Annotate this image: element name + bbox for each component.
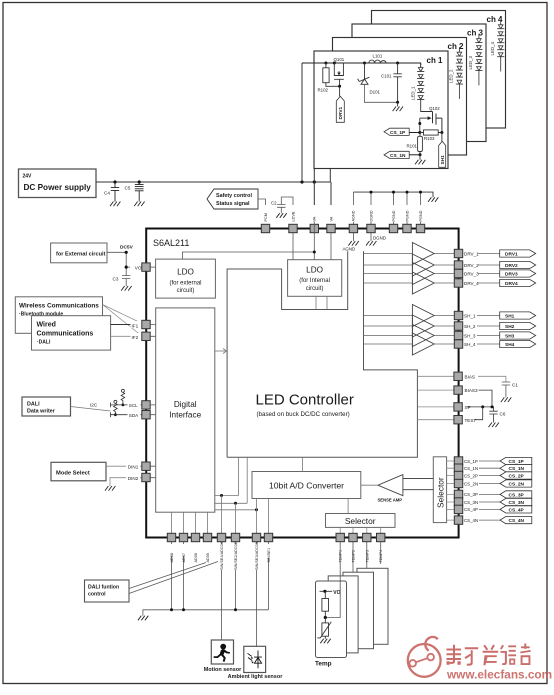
svg-text:SH_1: SH_1	[464, 313, 476, 318]
node ch1 supply riser	[300, 180, 303, 183]
wire selector to TEMP pins	[340, 527, 381, 533]
wire DIN1	[106, 465, 146, 467]
buffer DRV_1	[412, 243, 434, 265]
wire CS pins to tags	[463, 461, 500, 520]
wire SH driver inputs	[364, 316, 413, 345]
wire SDA	[110, 412, 146, 417]
svg-text:TEMP4: TEMP4	[379, 550, 383, 563]
svg-text:SH4: SH4	[505, 342, 515, 348]
node R103 right	[440, 131, 443, 134]
svg-text:AD06: AD06	[194, 553, 198, 563]
svg-text:LED_3: LED_3	[468, 56, 473, 70]
LED chain LED_4	[497, 20, 504, 72]
wire TEST up	[475, 407, 483, 420]
capacitor C6	[489, 407, 497, 423]
net tag DRV1	[500, 250, 536, 287]
wire wired to IF2	[111, 335, 146, 337]
svg-text:for External circuit: for External circuit	[56, 252, 106, 258]
buffer DRV_3	[412, 263, 434, 285]
wire SH pins to tags	[463, 316, 500, 345]
VO pin (left)	[126, 266, 146, 268]
wire DALI pointers	[129, 562, 218, 594]
wire AD08 AD07 down to gnd rail	[172, 542, 184, 610]
svg-text:R103: R103	[424, 136, 435, 141]
svg-text:www.elecfans.com: www.elecfans.com	[446, 668, 552, 682]
svg-text:VO: VO	[333, 590, 340, 596]
node R102 tap	[324, 62, 327, 65]
resistor R101	[418, 136, 423, 151]
pin DIN2	[126, 474, 140, 481]
wire riser to ch1	[301, 63, 303, 182]
svg-text:SH_2: SH_2	[464, 324, 476, 329]
svg-text:CS_3N: CS_3N	[464, 500, 478, 505]
svg-text:DRV_1: DRV_1	[464, 251, 479, 256]
svg-text:TEST: TEST	[465, 418, 477, 423]
svg-text:SIN/SE1: SIN/SE1	[267, 548, 271, 563]
pin BIAS3	[454, 386, 462, 394]
ch 1 box	[314, 51, 448, 169]
buffer DRV_4	[412, 272, 434, 294]
pin SP	[454, 403, 462, 411]
LED chain LED_3	[475, 34, 482, 86]
wire I2C link	[71, 407, 111, 412]
LED chain LED_1	[417, 68, 424, 100]
Selector (bottom)	[326, 514, 396, 528]
node VA riser	[313, 180, 316, 183]
wire SCL	[110, 403, 146, 408]
wire IF pins to DigIf	[150, 325, 156, 337]
svg-text:SH_3: SH_3	[464, 333, 476, 338]
svg-text:CS_1P: CS_1P	[464, 459, 478, 464]
svg-text:AD07: AD07	[182, 553, 186, 563]
svg-text:·DALI: ·DALI	[37, 340, 51, 346]
svg-text:Q102: Q102	[429, 106, 440, 111]
svg-text:CS_1N: CS_1N	[464, 466, 478, 471]
wire wireless diagonals to IF1 IF2	[103, 305, 141, 335]
svg-text:DRV1: DRV1	[505, 251, 518, 257]
ch 2 box	[333, 38, 467, 156]
svg-text:SENSE AMP: SENSE AMP	[378, 498, 403, 503]
ground AGND below pin	[352, 233, 354, 241]
svg-text:BIAS3: BIAS3	[465, 388, 478, 393]
svg-text:VA: VA	[329, 216, 333, 221]
svg-text:I2C: I2C	[90, 403, 98, 408]
svg-text:24V: 24V	[23, 174, 33, 180]
pin DIN1	[126, 463, 140, 470]
capacitor C101	[393, 63, 401, 102]
svg-text:DRV4: DRV4	[505, 281, 518, 287]
Temp block boxes	[357, 568, 388, 644]
svg-text:DALI funtion: DALI funtion	[88, 585, 119, 591]
svg-text:C101: C101	[381, 74, 392, 79]
svg-text:DALI: DALI	[27, 402, 40, 408]
svg-text:CS_1N: CS_1N	[509, 466, 525, 472]
wire sense amp to selector	[403, 479, 433, 490]
right pins DRV	[454, 249, 462, 287]
svg-text:C5: C5	[125, 186, 131, 191]
LDO for Internal circuit	[288, 260, 342, 297]
top pin labels	[263, 205, 423, 222]
svg-text:LDO: LDO	[177, 268, 194, 277]
svg-text:L101: L101	[373, 54, 383, 59]
svg-text:DC Power supply: DC Power supply	[24, 183, 92, 192]
capacitor C4	[111, 182, 119, 202]
svg-text:CS_4N: CS_4N	[464, 518, 478, 523]
svg-text:CS_2N: CS_2N	[464, 481, 478, 486]
wire safety tag to PCM pin	[258, 199, 266, 222]
buffer DRV_2	[412, 254, 434, 276]
svg-text:Ambient light sensor: Ambient light sensor	[228, 674, 284, 680]
ch 3 box	[352, 24, 486, 142]
svg-text:SIN/SE4/ADC04: SIN/SE4/ADC04	[220, 542, 224, 570]
svg-text:DRV2: DRV2	[505, 263, 518, 269]
svg-text:(for external: (for external	[169, 281, 201, 287]
svg-text:Selector: Selector	[436, 477, 446, 508]
Digital Interface block	[156, 308, 215, 512]
wire LDVB pin to LDO int	[292, 233, 294, 260]
wire DIN pins to DigIf	[150, 466, 156, 478]
inductor L101	[369, 60, 386, 63]
wire top ground rail	[353, 192, 433, 197]
wire DigIf to ADC harness	[215, 457, 257, 510]
wire PGND stubs	[394, 192, 421, 225]
svg-text:Q101: Q101	[334, 57, 345, 62]
svg-text:PGND: PGND	[392, 210, 396, 221]
svg-text:AD08: AD08	[170, 553, 174, 563]
svg-text:LED Controller: LED Controller	[256, 392, 354, 409]
wire BIAS internal stubs	[417, 376, 454, 419]
svg-text:Wired: Wired	[37, 322, 56, 329]
node temp divider	[324, 616, 327, 619]
svg-text:VA: VA	[313, 216, 317, 221]
node C101 tap	[396, 62, 399, 65]
sensor Motion sensor	[211, 640, 233, 664]
buffer SH_3	[412, 325, 434, 347]
wire SIN pins down	[222, 542, 269, 647]
svg-text:AGND: AGND	[352, 210, 356, 221]
svg-text:DGND: DGND	[373, 235, 386, 240]
capacitor C1	[502, 382, 510, 397]
pull-up resistor SCL	[121, 389, 125, 405]
net label SH1 (vertical banner)	[439, 141, 446, 167]
svg-text:Mode Select: Mode Select	[56, 471, 90, 477]
svg-text:CS_4P: CS_4P	[509, 507, 525, 513]
wire BIAS3 down	[479, 390, 493, 407]
node CS_1P	[418, 131, 421, 134]
wire DC5V node	[107, 252, 126, 275]
svg-text:CS_1N: CS_1N	[390, 153, 406, 159]
svg-text:ch 2: ch 2	[448, 42, 465, 51]
svg-text:SDA: SDA	[129, 413, 139, 418]
svg-text:LDO: LDO	[306, 266, 323, 275]
CS pins	[454, 457, 462, 525]
svg-text:DRV_4: DRV_4	[464, 281, 479, 286]
box DALI Data writer	[22, 397, 71, 416]
capacitor C2	[277, 197, 293, 222]
net tags CS_xx	[500, 457, 532, 523]
LED Controller block outline	[227, 251, 417, 457]
LDO for external circuit	[156, 259, 216, 298]
right pins SH	[454, 311, 462, 348]
svg-text:VO: VO	[135, 266, 142, 271]
svg-text:CS_4N: CS_4N	[509, 518, 525, 524]
svg-text:SH2: SH2	[505, 324, 515, 330]
svg-text:S6AL211: S6AL211	[153, 238, 189, 248]
svg-text:10bit A/D Converter: 10bit A/D Converter	[269, 480, 344, 490]
wire LED ctrl to ADC	[302, 457, 304, 471]
svg-text:R101: R101	[407, 143, 418, 148]
wire SIN pin risers	[222, 496, 269, 534]
svg-text:ch 3: ch 3	[467, 29, 484, 38]
10bit A/D Converter	[252, 472, 361, 499]
svg-text:CS_3N: CS_3N	[509, 500, 525, 506]
svg-text:DC5V: DC5V	[120, 245, 134, 251]
ch 4 box	[372, 11, 506, 129]
sensor Ambient light sensor	[244, 646, 266, 672]
wire VO pin to LDO ext	[150, 266, 155, 268]
svg-text:circuit): circuit)	[177, 288, 195, 294]
wire DRV outputs	[434, 254, 454, 284]
wire LED to Q102 drain	[421, 99, 433, 111]
svg-text:CS_3P: CS_3P	[464, 492, 478, 497]
svg-text:CS_2P: CS_2P	[464, 473, 478, 478]
wire SP node	[467, 406, 494, 408]
svg-text:LED_1: LED_1	[411, 86, 416, 100]
svg-text:LED_2: LED_2	[449, 69, 454, 83]
wire VO supply temp	[320, 590, 333, 592]
node gate mid	[418, 122, 421, 125]
box Mode Select	[51, 462, 106, 481]
wire LDO int bottom stubs	[316, 296, 327, 309]
svg-text:SH1: SH1	[505, 313, 515, 319]
svg-text:Wireless Communications: Wireless Communications	[19, 303, 99, 310]
thermistor	[317, 618, 331, 639]
svg-text:C3: C3	[113, 277, 119, 282]
svg-text:ch 1: ch 1	[427, 56, 444, 65]
svg-text:TEMP1: TEMP1	[339, 550, 343, 563]
capacitor C5 (stacked)	[135, 182, 144, 202]
node CS_1N / R101 bottom	[419, 153, 422, 156]
svg-text:SIN/SE2/ADC02: SIN/SE2/ADC02	[234, 542, 238, 570]
node Q101 gate	[338, 85, 341, 88]
svg-text:(for Internal: (for Internal	[299, 278, 330, 284]
net tag Safety control / Status signal	[207, 189, 258, 209]
svg-text:Interface: Interface	[169, 411, 201, 420]
pin SCL	[128, 401, 141, 408]
svg-text:Data writer: Data writer	[27, 409, 56, 415]
svg-text:IF1: IF1	[132, 323, 139, 328]
svg-text:CS_2P: CS_2P	[509, 473, 525, 479]
svg-text:C2: C2	[271, 201, 277, 206]
node Q101 source tap	[333, 62, 336, 65]
svg-text:C6: C6	[500, 412, 506, 417]
net label DRV1 (vertical banner)	[336, 96, 344, 122]
svg-text:LED_4: LED_4	[490, 42, 495, 56]
top pins	[261, 224, 424, 232]
svg-text:DRV1: DRV1	[338, 106, 344, 119]
svg-text:DRV3: DRV3	[505, 271, 518, 277]
svg-text:PGND: PGND	[419, 210, 423, 221]
box DALI funtion control	[85, 580, 130, 602]
wire riser VA pin to ch1 corner	[313, 169, 315, 222]
pin BIAS	[454, 372, 462, 380]
svg-text:IF2: IF2	[132, 335, 139, 340]
wire DGND pin stub	[370, 192, 372, 225]
svg-text:CS_1P: CS_1P	[509, 459, 525, 465]
svg-text:PGND: PGND	[405, 210, 409, 221]
amp SENSE AMP	[378, 475, 403, 496]
svg-text:R102: R102	[318, 88, 329, 93]
svg-text:Selector: Selector	[345, 516, 376, 526]
svg-text:C1: C1	[512, 383, 518, 388]
svg-text:DRV_2: DRV_2	[464, 263, 479, 268]
wire 24V rail	[96, 169, 330, 183]
svg-text:LDVB: LDVB	[291, 211, 295, 221]
box for External circuit	[51, 243, 107, 263]
net label CS_1N tag	[384, 151, 409, 159]
buffer SH_2	[412, 315, 434, 337]
pin IF2	[131, 333, 142, 340]
svg-text:Digital: Digital	[174, 400, 197, 409]
node C4 tap	[113, 180, 116, 183]
wire bottom ground rail	[143, 610, 269, 616]
wire AD pin risers	[172, 512, 208, 533]
wire DRV driver inputs	[364, 254, 413, 284]
watermark	[408, 637, 441, 677]
pin TEST	[454, 416, 462, 424]
wire SCL SDA to DigIf	[150, 405, 156, 415]
svg-text:AGND: AGND	[343, 247, 356, 252]
wire AGND pin stub	[352, 192, 354, 225]
svg-text:CS_1P: CS_1P	[390, 130, 406, 136]
svg-text:SCL: SCL	[129, 403, 138, 408]
svg-text:TEMP3: TEMP3	[365, 550, 369, 563]
wire TEMP pin drops	[325, 542, 380, 618]
buffer SH_1	[412, 305, 434, 327]
Selector (vertical)	[433, 457, 446, 523]
svg-text:CS_4P: CS_4P	[464, 507, 478, 512]
diode D101 (zener)	[358, 63, 398, 102]
svg-text:circuit): circuit)	[306, 286, 324, 292]
wire DIN2 with ground	[110, 478, 146, 486]
svg-text:control: control	[88, 592, 106, 598]
wire DigIf to LED Controller arrow	[215, 350, 226, 352]
svg-text:DRV_3: DRV_3	[464, 271, 479, 276]
svg-text:SH_4: SH_4	[464, 342, 476, 347]
IC S6AL211 outline	[146, 229, 458, 538]
svg-text:DIN2: DIN2	[128, 476, 139, 481]
pin SDA	[128, 411, 141, 418]
bottom pins	[167, 533, 385, 541]
net label CS_1P tag	[384, 128, 409, 136]
pin IF1	[131, 321, 142, 328]
wire DRV pins to tags	[463, 254, 500, 284]
net tag SH1-4	[500, 312, 536, 348]
svg-text:TEMP2: TEMP2	[352, 550, 356, 563]
svg-text:Motion sensor: Motion sensor	[204, 667, 242, 673]
svg-text:SP: SP	[465, 405, 471, 410]
box Wireless Communications	[15, 297, 102, 334]
wire ADC to selector	[347, 499, 349, 514]
svg-text:(based on buck DC/DC converter: (based on buck DC/DC converter)	[257, 411, 350, 418]
svg-text:PCM: PCM	[264, 213, 268, 221]
svg-text:DGND: DGND	[369, 210, 373, 221]
wire ch1 internal rail	[302, 63, 421, 68]
wire BIAS to C1	[478, 376, 506, 382]
node C101/D101 ground	[396, 101, 399, 104]
svg-text:Temp: Temp	[315, 661, 332, 668]
resistor R102	[323, 63, 340, 86]
svg-text:C4: C4	[104, 191, 110, 196]
svg-text:CS_2N: CS_2N	[509, 481, 525, 487]
ground DGND below pin	[370, 233, 372, 241]
bottom pin labels	[169, 542, 383, 570]
resistor temp divider	[322, 591, 329, 617]
svg-text:D101: D101	[370, 90, 381, 95]
svg-text:Safety control: Safety control	[216, 193, 252, 199]
capacitor C3	[122, 276, 130, 286]
pull-up resistor SDA	[114, 400, 118, 414]
wire SH outputs	[434, 316, 454, 345]
svg-text:SH1: SH1	[440, 155, 446, 165]
wire riser VA2 pin	[330, 182, 332, 222]
resistor R103	[424, 130, 439, 135]
svg-text:SIN/SE3/ADC03: SIN/SE3/ADC03	[255, 542, 259, 570]
wire selector to CS pins	[447, 461, 454, 520]
svg-text:Communications: Communications	[37, 331, 94, 338]
svg-text:CS_3P: CS_3P	[509, 492, 525, 498]
svg-text:DIN1: DIN1	[128, 465, 139, 470]
box Wired Communications	[32, 316, 111, 350]
wire LDO ext top to VA	[182, 222, 314, 260]
DC Power supply	[19, 169, 97, 198]
svg-text:AD05: AD05	[206, 553, 210, 563]
svg-text:BIAS: BIAS	[465, 374, 475, 379]
node C5 tap	[138, 180, 141, 183]
svg-text:Status signal: Status signal	[216, 201, 250, 207]
LED chain LED_2	[456, 47, 463, 99]
wire VA2 pin into LDO int	[330, 233, 332, 260]
svg-text:SH3: SH3	[505, 333, 515, 339]
buffer SH_4	[412, 333, 434, 355]
wire wired to IF1	[111, 324, 146, 326]
node D101 tap	[363, 62, 366, 65]
